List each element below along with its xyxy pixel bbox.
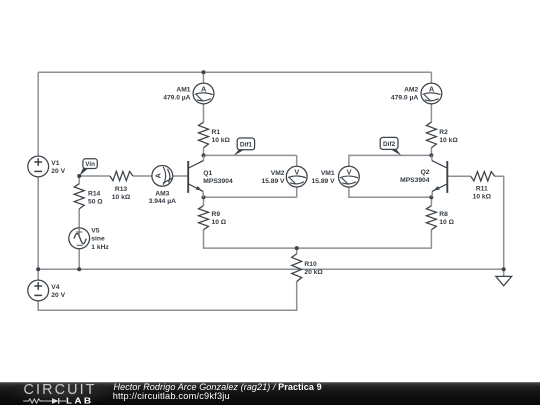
svg-text:R1310 kΩ: R1310 kΩ — [112, 186, 131, 201]
wire Vin node to R14 — [78, 176, 80, 184]
svg-text:V: V — [347, 168, 352, 177]
wire VM2 top stub — [296, 155, 298, 166]
svg-text:A: A — [201, 85, 207, 94]
svg-text:R110 kΩ: R110 kΩ — [212, 129, 231, 144]
wire Q1 collector rail to VM2 — [204, 154, 297, 156]
junction Q1 emitter — [202, 195, 206, 199]
resistor R10 — [292, 254, 302, 282]
svg-text:R910 Ω: R910 Ω — [212, 211, 227, 226]
svg-text:V420 V: V420 V — [51, 284, 65, 299]
junction top rail / AM1 — [202, 70, 206, 74]
footer bar — [0, 382, 540, 405]
svg-text:Vin: Vin — [85, 161, 95, 168]
wire R13 to AM3 — [133, 175, 152, 177]
wire AM2 top stub — [430, 72, 432, 83]
junction ground node — [502, 267, 506, 271]
wire left rail lower (V1 bottom to node) — [37, 177, 39, 269]
wire R8 bottom to R10 node — [297, 230, 432, 248]
wire R14 to V5 — [78, 209, 80, 228]
svg-text:R810 Ω: R810 Ω — [439, 211, 454, 226]
wire R10 top stub — [296, 248, 298, 254]
svg-text:VM115.89 V: VM115.89 V — [312, 170, 336, 185]
wire Q2 base to R11 — [447, 175, 471, 177]
wire V4 top stub — [37, 269, 39, 280]
node flag Vin — [79, 159, 97, 176]
junction Q1 collector — [202, 153, 206, 157]
svg-text:VM215.89 V: VM215.89 V — [261, 170, 285, 185]
voltage source V1 — [28, 156, 49, 177]
voltmeter VM2 — [286, 166, 307, 187]
circuit url — [113, 391, 230, 401]
wire R9 bottom to R10 node — [204, 230, 297, 248]
wire VM2 bottom stub — [296, 187, 298, 197]
ammeter AM2 — [421, 83, 442, 104]
svg-text:A: A — [429, 85, 435, 94]
svg-text:R1110 kΩ: R1110 kΩ — [473, 186, 492, 201]
svg-text:AM1479.0 µA: AM1479.0 µA — [163, 87, 191, 102]
svg-text:R1450 Ω: R1450 Ω — [88, 191, 103, 206]
svg-text:Q1MPS3904: Q1MPS3904 — [203, 170, 233, 185]
wire R11 to ground column — [495, 176, 504, 269]
junction V5 / middle rail — [77, 267, 81, 271]
wire R1 to Q1 collector node — [203, 148, 205, 156]
svg-text:Dif1: Dif1 — [240, 141, 253, 148]
transistor Q2 — [432, 155, 447, 197]
svg-text:Q2MPS3904: Q2MPS3904 — [400, 169, 430, 184]
ground — [496, 276, 512, 285]
svg-text:V: V — [294, 168, 299, 177]
wire middle rail (emitter supply) — [38, 268, 504, 270]
wire Q1 emitter to R9 — [203, 197, 205, 206]
resistor R2 — [426, 122, 436, 148]
wire AM1 to R1 — [203, 104, 205, 122]
wire AM1 top stub — [203, 72, 205, 83]
sine source V5 — [69, 228, 90, 249]
svg-text:R1020 kΩ: R1020 kΩ — [304, 261, 323, 276]
node flag Dif1 — [234, 138, 255, 156]
resistor R11 — [471, 172, 495, 181]
junction Q2 collector — [429, 153, 433, 157]
resistor R14 — [74, 184, 84, 209]
wire VM1 top to Q2 collector rail — [349, 155, 432, 166]
resistor R8 — [426, 206, 436, 230]
junction node Vin — [77, 174, 81, 178]
wire AM3 to Q1 base — [173, 175, 189, 177]
wire top rail — [38, 71, 431, 73]
wire V5 bottom stub — [78, 248, 80, 269]
svg-text:A: A — [153, 172, 162, 178]
transistor Q1 — [188, 155, 203, 197]
junction V1/V4 node — [36, 267, 40, 271]
wire R2 to Q2 collector node — [430, 148, 432, 156]
svg-text:AM33.944 µA: AM33.944 µA — [149, 190, 176, 205]
wire V4 bottom to bottom rail — [38, 282, 297, 311]
attribution text — [114, 382, 322, 392]
svg-text:V5sine1 kHz: V5sine1 kHz — [91, 227, 109, 251]
wire Q2 emitter to R8 — [430, 197, 432, 206]
resistor R9 — [199, 206, 209, 230]
voltmeter VM1 — [339, 166, 360, 187]
resistor R13 — [110, 171, 133, 180]
ammeter AM1 — [193, 83, 214, 104]
svg-text:V120 V: V120 V — [51, 160, 65, 175]
node flag Dif2 — [380, 137, 401, 155]
junction R10 top node — [295, 246, 299, 250]
wire VM1 bottom to Q2 emitter rail — [349, 187, 432, 197]
ammeter AM3 — [152, 166, 173, 187]
wire left rail upper (V1 top) — [37, 72, 39, 156]
resistor R1 — [199, 122, 209, 148]
wire AM2 to R2 — [430, 104, 432, 122]
wire Vin node to R13 — [79, 175, 110, 177]
svg-text:AM2479.0 µA: AM2479.0 µA — [391, 87, 419, 102]
CircuitLab logo — [24, 382, 97, 398]
junction Q2 emitter — [429, 195, 433, 199]
svg-text:R210 kΩ: R210 kΩ — [439, 129, 458, 144]
svg-text:Dif2: Dif2 — [383, 141, 396, 148]
voltage source V4 — [28, 280, 49, 301]
wire Q1 emitter rail to VM2 — [204, 196, 297, 198]
wire ground stub — [503, 269, 505, 276]
